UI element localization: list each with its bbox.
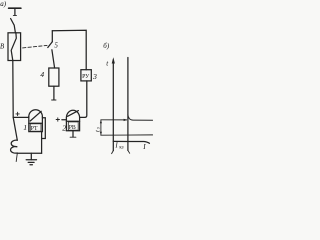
svg-text:РУ: РУ	[82, 74, 90, 80]
svg-text:б): б)	[103, 42, 110, 50]
svg-text:I: I	[114, 141, 118, 149]
svg-text:а): а)	[0, 0, 7, 8]
svg-text:3: 3	[92, 72, 97, 81]
svg-text:РТ: РТ	[31, 126, 38, 132]
svg-text:I: I	[142, 143, 146, 151]
svg-text:5: 5	[54, 42, 58, 50]
svg-text:кз: кз	[119, 146, 123, 151]
svg-text:2: 2	[62, 123, 66, 132]
svg-text:з: з	[97, 127, 102, 129]
svg-text:1: 1	[23, 123, 27, 132]
svg-text:В: В	[0, 44, 4, 51]
svg-text:t: t	[106, 60, 109, 68]
svg-text:4: 4	[40, 70, 44, 79]
svg-text:РВ: РВ	[69, 125, 76, 131]
svg-text:t: t	[94, 130, 101, 132]
